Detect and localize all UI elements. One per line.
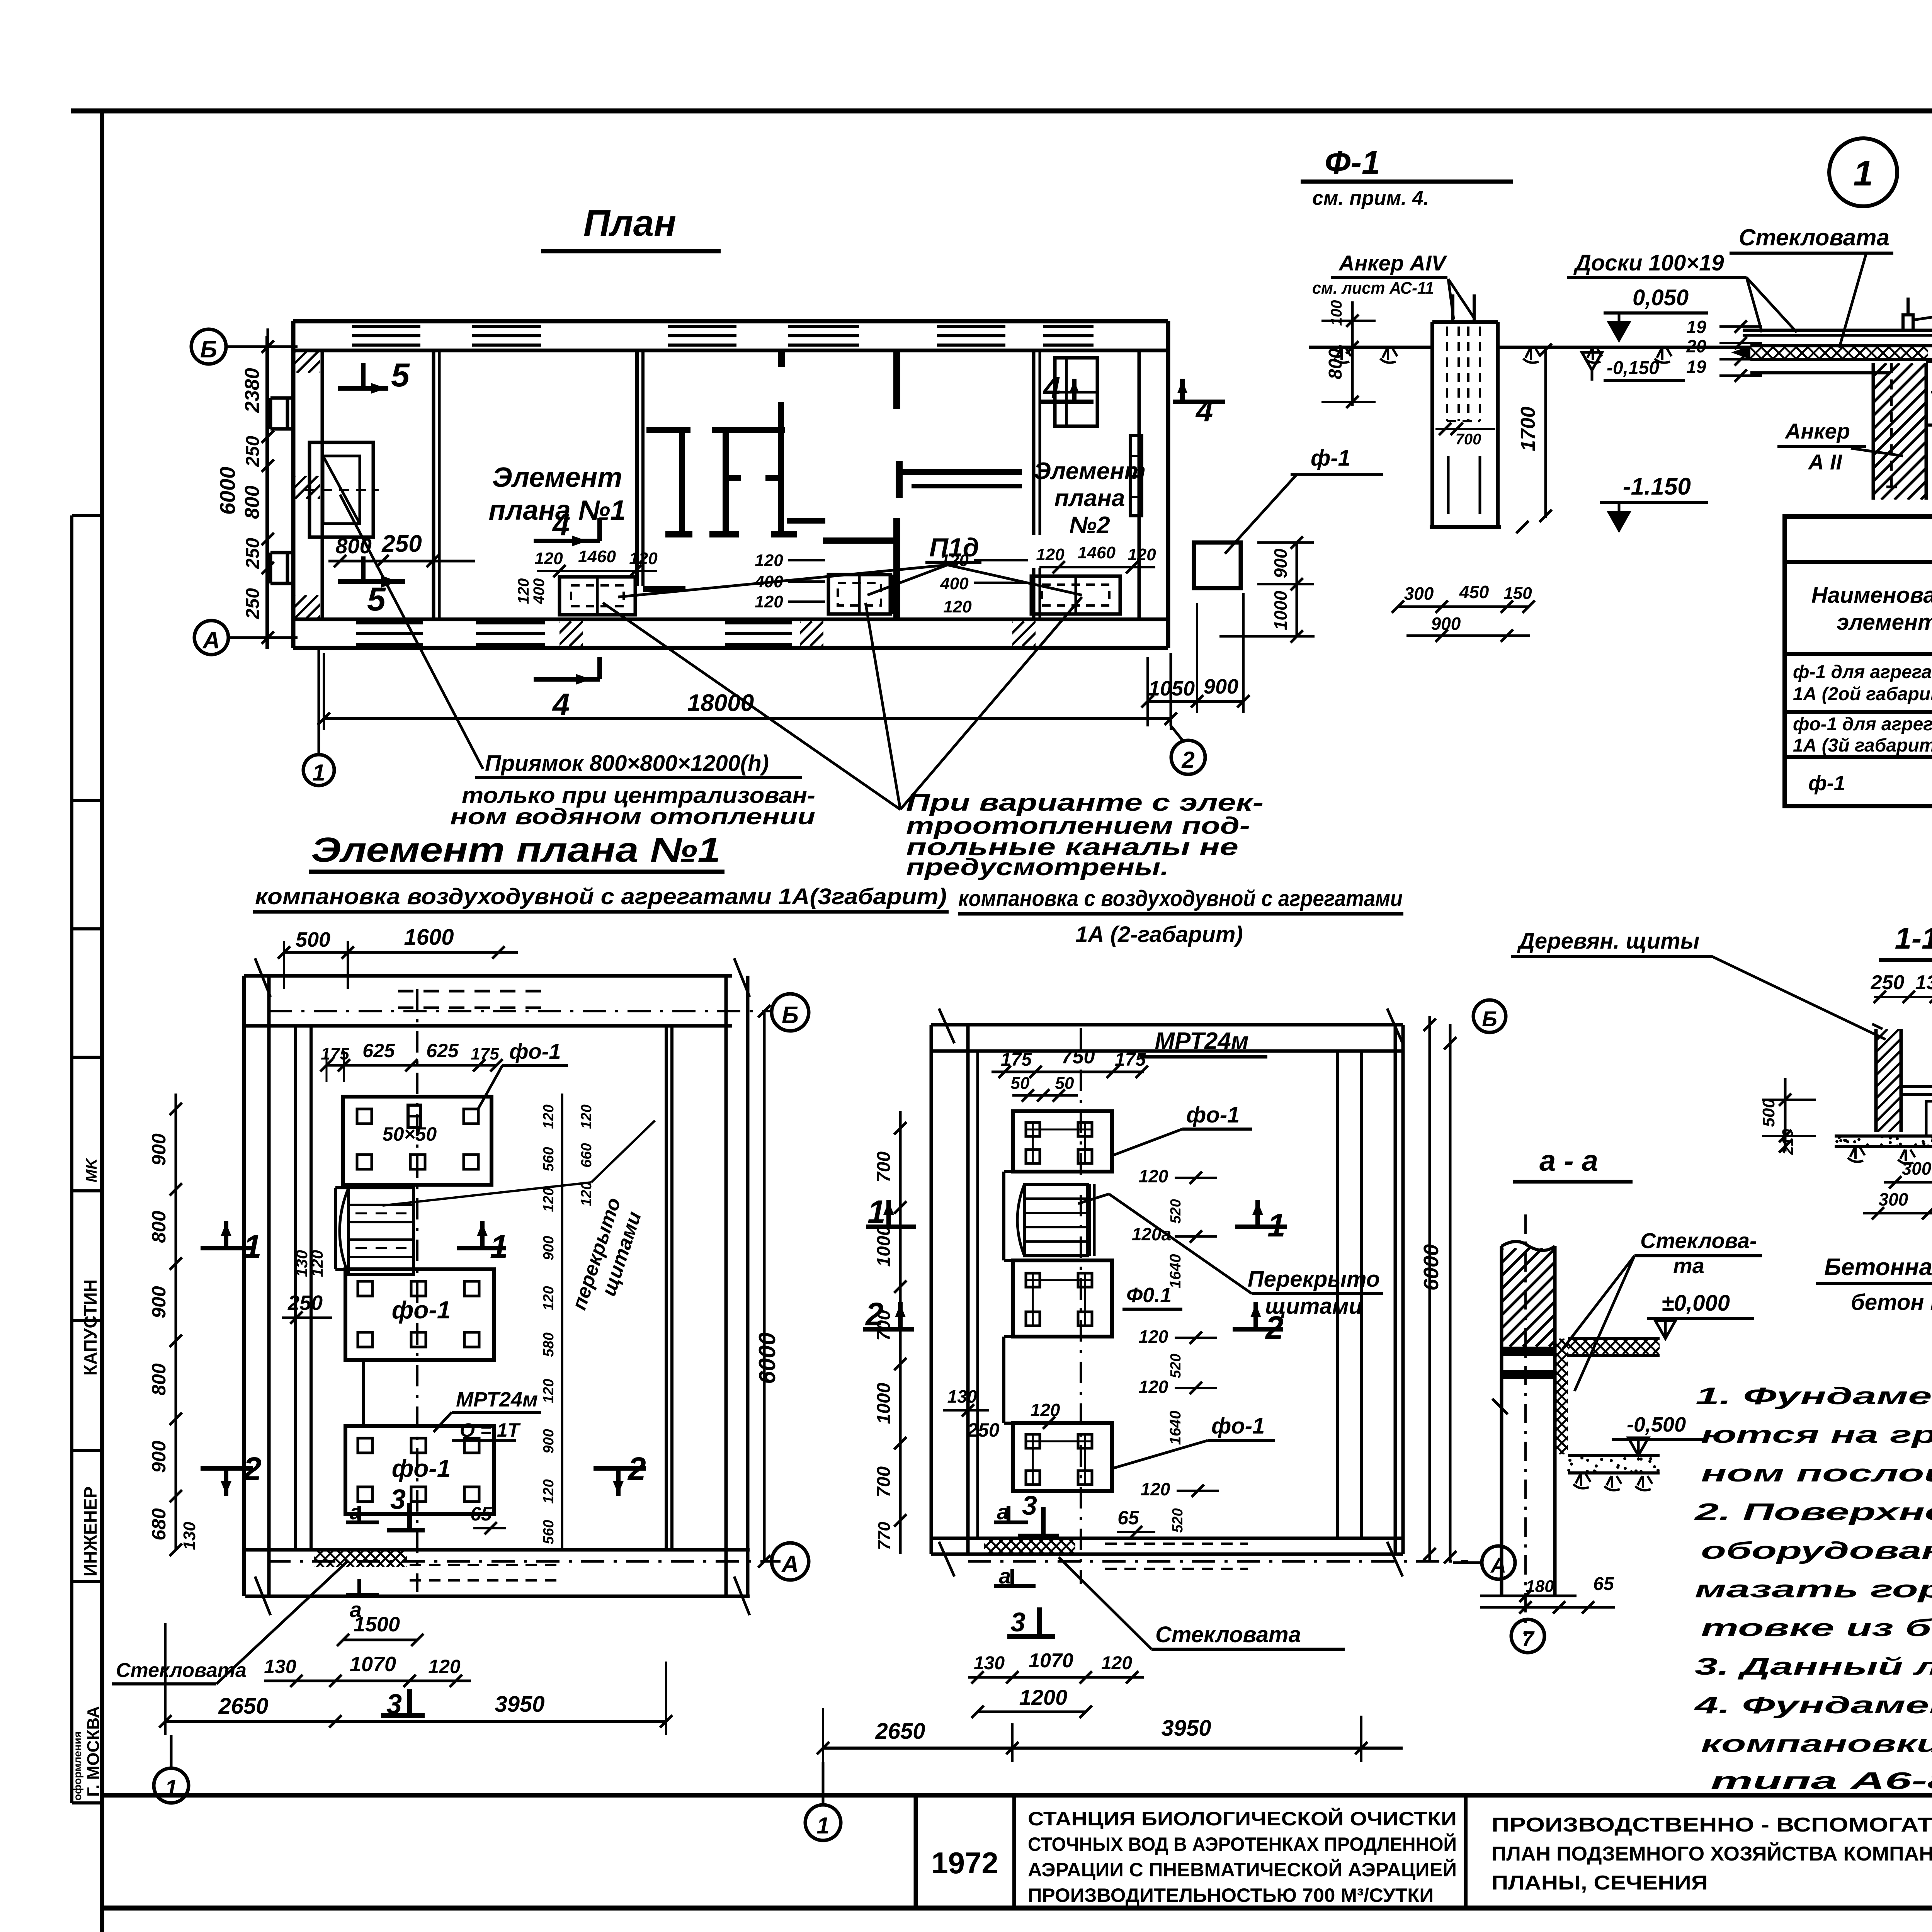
- plan1 leader перекрыто to blocks: [383, 1121, 655, 1206]
- floor layers 19 20 19: [1686, 317, 1762, 382]
- svg-text:-0,500: -0,500: [1627, 1413, 1686, 1436]
- level mark -0.150: [1582, 352, 1685, 381]
- svg-text:1460: 1460: [1078, 543, 1116, 562]
- svg-text:800: 800: [148, 1363, 170, 1396]
- grid axis 1 vertical line: [318, 649, 320, 753]
- section 1-1 bottom dims: [1863, 1156, 1932, 1219]
- svg-text:120: 120: [308, 1250, 326, 1277]
- svg-text:При варианте с элек-: При варианте с элек-: [906, 789, 1264, 816]
- leader line приямок: [340, 495, 483, 769]
- svg-text:700: 700: [874, 1151, 894, 1182]
- partition wall right room: [1034, 350, 1040, 619]
- svg-text:СТАНЦИЯ БИОЛОГИЧЕСКОЙ ОЧИСТКИ: СТАНЦИЯ БИОЛОГИЧЕСКОЙ ОЧИСТКИ: [1028, 1808, 1457, 1830]
- hatched pier bottom wall 2: [776, 621, 858, 646]
- cabinet right room: [1055, 358, 1097, 426]
- svg-text:500: 500: [296, 928, 330, 951]
- svg-text:фо-1 для агрегата: фо-1 для агрегата: [1793, 714, 1932, 735]
- svg-text:800: 800: [241, 486, 264, 519]
- svg-text:150: 150: [1503, 584, 1532, 603]
- entrance porch left bottom: [270, 553, 293, 583]
- svg-text:120: 120: [541, 1286, 557, 1310]
- section flag 4 right-a: [1041, 370, 1094, 405]
- svg-text:180: 180: [1526, 1577, 1554, 1596]
- svg-text:50×50: 50×50: [383, 1123, 437, 1145]
- svg-text:ПРОИЗВОДСТВЕННО - ВСПОМОГАТЕЛЬ: ПРОИЗВОДСТВЕННО - ВСПОМОГАТЕЛЬНОЕ ЗДАНИЕ: [1492, 1814, 1932, 1836]
- svg-text:130: 130: [264, 1656, 296, 1677]
- grid circle 1: [303, 755, 334, 786]
- svg-text:МРТ24м: МРТ24м: [456, 1388, 538, 1411]
- svg-text:130: 130: [180, 1522, 199, 1550]
- plan left dim texts 2380 250 800 250 250: [241, 368, 264, 619]
- svg-text:120: 120: [755, 592, 783, 611]
- section flag 4 upper-mid: [534, 507, 600, 546]
- grid circle 2: [1171, 740, 1205, 774]
- svg-text:1050: 1050: [1148, 677, 1195, 700]
- svg-text:900: 900: [148, 1286, 170, 1318]
- svg-text:Приямок 800×800×1200(h): Приямок 800×800×1200(h): [485, 751, 769, 776]
- pier anchor dashed lines: [1447, 294, 1480, 514]
- subheading компановка с воздуходувной 2 габарит: [958, 886, 1403, 947]
- svg-text:ПРОИЗВОДИТЕЛЬНОСТЬЮ 700 М³/СУТ: ПРОИЗВОДИТЕЛЬНОСТЬЮ 700 М³/СУТКИ: [1028, 1884, 1434, 1906]
- svg-text:100: 100: [1328, 300, 1345, 326]
- svg-text:800: 800: [148, 1211, 170, 1243]
- svg-text:50: 50: [1011, 1074, 1030, 1093]
- svg-text:фо-1: фо-1: [392, 1296, 451, 1324]
- plan1 top wall: [244, 976, 732, 1026]
- svg-text:120: 120: [428, 1656, 461, 1677]
- svg-text:400: 400: [531, 578, 548, 605]
- plan2 axis А dashed: [968, 1560, 1468, 1563]
- note Приямок 800х800х1200: [450, 751, 815, 829]
- svg-text:250: 250: [1871, 971, 1905, 994]
- section 1-1 small post: [1926, 1101, 1932, 1136]
- svg-text:Наименование: Наименование: [1811, 583, 1932, 608]
- section flag 5 lower: [338, 556, 405, 618]
- plan1 rotated label перекрыто щитами: [568, 1195, 646, 1313]
- svg-text:4: 4: [552, 687, 570, 721]
- plan dim 120 400 120 middle: [754, 551, 825, 611]
- svg-text:1. Фундаменты под оборуд: 1. Фундаменты под оборудование устраива-: [1696, 1383, 1932, 1410]
- wood deck boards section: [1731, 330, 1932, 373]
- plan1 top dim 500 1600: [278, 925, 518, 989]
- section a-a lower slab: [1567, 1456, 1660, 1490]
- section a-a level 0.000: [1647, 1291, 1754, 1338]
- footing Ф-1 square: [1194, 543, 1241, 588]
- svg-text:ф-1: ф-1: [1808, 772, 1845, 795]
- plan1 right wall: [666, 976, 748, 1596]
- svg-text:Ф-1: Ф-1: [1325, 144, 1380, 181]
- detail subtitle см.прим.4: [1312, 187, 1429, 209]
- svg-text:Стекловата: Стекловата: [116, 1659, 247, 1682]
- plan1 section flag 1 right: [457, 1221, 508, 1265]
- plan1 dim 2650 3950: [159, 1623, 672, 1735]
- svg-text:Стекловата: Стекловата: [1739, 224, 1889, 250]
- svg-text:Анкер: Анкер: [1784, 419, 1850, 443]
- svg-text:120: 120: [1139, 1166, 1168, 1186]
- svg-text:0,050: 0,050: [1633, 285, 1689, 310]
- window W9 bottom wall: [725, 623, 792, 645]
- svg-text:1: 1: [165, 1775, 177, 1801]
- svg-text:560: 560: [541, 1520, 557, 1544]
- section a-a level -0.500: [1612, 1413, 1708, 1456]
- svg-text:1200: 1200: [1019, 1685, 1068, 1709]
- plan1 section flag 2 right: [594, 1451, 646, 1496]
- svg-text:1: 1: [490, 1228, 508, 1265]
- section flag 4 lower-mid: [534, 657, 600, 721]
- svg-text:400: 400: [940, 574, 969, 593]
- svg-text:900: 900: [148, 1440, 170, 1473]
- plan dim 120 1460 120 room2: [1036, 543, 1156, 573]
- section flag 5 upper: [338, 357, 410, 394]
- svg-text:300: 300: [1879, 1189, 1908, 1209]
- partition L-wall middle lower: [787, 518, 900, 619]
- svg-text:900: 900: [1431, 614, 1461, 634]
- grid axis А line: [229, 636, 298, 639]
- svg-text:7: 7: [1522, 1626, 1535, 1651]
- sheet frame left border: [100, 111, 104, 1932]
- section 1-1 inner pier hatched: [1924, 1099, 1932, 1136]
- plan1 bottom wall: [245, 1550, 750, 1596]
- section a-a glasswool strip vertical: [1439, 1338, 1685, 1454]
- channel box П1д right room: [1031, 576, 1120, 614]
- plan1 bottom hatched strip стекловата: [296, 1550, 434, 1567]
- svg-text:1: 1: [1267, 1207, 1286, 1243]
- plan1 foundation block 3: [345, 1426, 494, 1514]
- svg-text:АЭРАЦИИ С ПНЕВМАТИЧЕСКОЙ АЭРАЦ: АЭРАЦИИ С ПНЕВМАТИЧЕСКОЙ АЭРАЦИЕЙ: [1028, 1859, 1457, 1881]
- label Бетонная подготовка: [1816, 1140, 1932, 1315]
- svg-text:Элемент: Элемент: [1034, 458, 1146, 485]
- grid circle А: [194, 621, 228, 655]
- plan2 dim 65: [1117, 1507, 1155, 1538]
- svg-text:625: 625: [362, 1040, 395, 1061]
- plan1 grid circle 1: [154, 1735, 189, 1803]
- hatched pier bottom wall 3: [988, 621, 1070, 646]
- svg-text:175: 175: [1115, 1049, 1146, 1070]
- svg-text:250: 250: [243, 538, 263, 569]
- svg-text:плана: плана: [1054, 485, 1125, 512]
- plan2 bottom wall: [931, 1538, 1403, 1569]
- svg-text:130: 130: [974, 1653, 1005, 1673]
- plan dim 120 400 120 right: [940, 551, 1028, 616]
- svg-text:a: a: [997, 1500, 1009, 1524]
- svg-text:5: 5: [367, 581, 386, 618]
- partition wall x2312 upper: [893, 350, 900, 409]
- plan2 wall break marks: [939, 1009, 1403, 1577]
- plan1 foundation block 1: [343, 1097, 492, 1185]
- soil hatch marks: [1334, 349, 1672, 363]
- svg-text:120: 120: [1031, 1400, 1060, 1420]
- foundation pier Ф-1 section: [1430, 322, 1501, 527]
- svg-text:65: 65: [1593, 1574, 1614, 1594]
- building outer wall right: [1139, 321, 1168, 648]
- svg-text:1070: 1070: [350, 1653, 396, 1676]
- svg-text:элемента: элемента: [1837, 610, 1932, 635]
- svg-text:580: 580: [541, 1332, 557, 1357]
- svg-text:120: 120: [940, 551, 969, 570]
- plan left dim 6000: [215, 467, 240, 515]
- plan2 foundation block 3: [1013, 1423, 1112, 1491]
- svg-text:300: 300: [1404, 583, 1434, 604]
- plan bottom dim line 18000: [318, 653, 1177, 730]
- plan1 section flag 1 left: [201, 1221, 262, 1265]
- svg-text:1: 1: [243, 1228, 262, 1265]
- svg-text:175: 175: [471, 1044, 499, 1063]
- svg-text:19: 19: [1686, 357, 1706, 377]
- materials table headers: [1811, 567, 1932, 648]
- svg-text:СТОЧНЫХ ВОД В АЭРОТЕНКАХ ПРОДЛ: СТОЧНЫХ ВОД В АЭРОТЕНКАХ ПРОДЛЕННОЙ: [1028, 1833, 1457, 1855]
- channel box П1д room1: [560, 577, 635, 615]
- svg-text:А: А: [1490, 1553, 1506, 1577]
- svg-text:65: 65: [1117, 1507, 1139, 1529]
- svg-text:1070: 1070: [1029, 1650, 1073, 1672]
- svg-text:4: 4: [1195, 393, 1213, 428]
- svg-text:Ф0.1: Ф0.1: [1126, 1284, 1172, 1307]
- svg-text:19: 19: [1686, 317, 1706, 337]
- plan2 flag a lower: [994, 1564, 1036, 1588]
- plan2 left wall: [931, 1025, 978, 1554]
- svg-text:120: 120: [943, 597, 972, 616]
- svg-text:Анкер АIV: Анкер АIV: [1338, 251, 1448, 275]
- plan1 axis Б dashed: [269, 1010, 771, 1012]
- svg-text:Стекловата: Стекловата: [1155, 1622, 1301, 1647]
- hatched pier left wall mid: [272, 476, 353, 499]
- sanitary cubicle T-wall 1: [646, 427, 692, 537]
- svg-text:520: 520: [1170, 1508, 1186, 1532]
- plan2 center axis dashed: [1080, 1028, 1082, 1584]
- detail dim tick bottom: [1516, 521, 1529, 533]
- plan2 label фо-1 top leader: [1113, 1102, 1252, 1155]
- partition wall x1644: [637, 350, 685, 592]
- svg-text:900: 900: [541, 1236, 557, 1260]
- sheet bottom border / title block bottom: [102, 1906, 1932, 1911]
- plan1 center axis dashed: [416, 989, 418, 1592]
- section a-a grid circle А: [1453, 1546, 1515, 1579]
- channel box П1д middle: [828, 575, 893, 614]
- plan2 left dim string: [874, 1111, 906, 1554]
- svg-text:700: 700: [1456, 431, 1481, 448]
- section 1-1 ground slab: [1835, 1135, 1932, 1164]
- svg-text:250: 250: [287, 1291, 323, 1315]
- pit dashed axis: [305, 489, 379, 491]
- svg-text:900: 900: [148, 1133, 170, 1166]
- window W3 top wall: [668, 324, 736, 348]
- svg-text:ф-1: ф-1: [1311, 446, 1350, 471]
- plan1 dim 175 625 625 175: [320, 1040, 503, 1082]
- svg-text:625: 625: [426, 1040, 459, 1061]
- plan bottom dim 1050 900: [1141, 593, 1250, 726]
- svg-text:1600: 1600: [404, 925, 454, 950]
- svg-text:700: 700: [874, 1310, 894, 1341]
- left margin stamp column boxes: [72, 515, 102, 1803]
- plan dim 800 250 pit: [328, 531, 475, 567]
- svg-text:1000: 1000: [874, 1225, 894, 1267]
- section 1-1 floor slab: [1901, 1087, 1932, 1094]
- svg-text:120: 120: [541, 1104, 557, 1129]
- svg-text:ПЛАН ПОДЗЕМНОГО ХОЗЯЙСТВА КОМП: ПЛАН ПОДЗЕМНОГО ХОЗЯЙСТВА КОМПАНОВКА ВОЗ…: [1492, 1842, 1932, 1865]
- detail pier bottom dims 300 450 150: [1392, 582, 1535, 613]
- plan1 wall break marks: [255, 958, 750, 1615]
- plan dim stack 120 400 120 room1: [515, 578, 548, 605]
- svg-text:3: 3: [390, 1484, 406, 1515]
- svg-text:3950: 3950: [495, 1692, 544, 1717]
- plan2 bottom hatched strip: [968, 1538, 1094, 1554]
- svg-text:1-1: 1-1: [1895, 921, 1932, 955]
- anchor rod in pier: [1886, 363, 1897, 487]
- svg-text:3: 3: [1022, 1490, 1037, 1520]
- deck bolt Брус: [1903, 298, 1913, 330]
- svg-text:500: 500: [1759, 1099, 1778, 1127]
- section 1-1 dim 250 130: [1871, 971, 1932, 1003]
- svg-text:Бетонная подготовка: Бетонная подготовка: [1824, 1254, 1932, 1281]
- svg-text:65: 65: [470, 1503, 492, 1525]
- svg-text:120: 120: [1141, 1479, 1170, 1499]
- plan2 top dims 175 750 175 50 50: [992, 1046, 1148, 1102]
- svg-text:6000: 6000: [754, 1332, 780, 1384]
- section a-a floor right: [1553, 1338, 1679, 1355]
- section 1-1 wall hatched: [1773, 1024, 1932, 1132]
- room label Элемент плана №1: [489, 462, 626, 526]
- svg-text:2: 2: [243, 1451, 262, 1487]
- svg-text:175: 175: [321, 1044, 349, 1063]
- svg-text:120: 120: [1139, 1377, 1168, 1397]
- plan2 section flag 1 right: [1235, 1200, 1287, 1243]
- svg-text:см. прим. 4.: см. прим. 4.: [1312, 187, 1429, 209]
- svg-text:4. Фундамент Ф-1 под труб: 4. Фундамент Ф-1 под трубу для варианта: [1693, 1692, 1932, 1719]
- svg-text:Q = 1Т: Q = 1Т: [460, 1419, 521, 1441]
- svg-text:ф-1 для агрегата: ф-1 для агрегата: [1793, 662, 1932, 682]
- svg-text:-0,150: -0,150: [1607, 358, 1659, 378]
- plan2 section flag 2 left: [863, 1296, 914, 1332]
- svg-text:оборудование, соприкасающиеся: оборудование, соприкасающиеся с землей, …: [1701, 1537, 1932, 1564]
- svg-text:120: 120: [1101, 1653, 1132, 1673]
- svg-text:1: 1: [867, 1194, 886, 1230]
- svg-text:2: 2: [627, 1451, 646, 1487]
- svg-text:компановка воздуходувной с агр: компановка воздуходувной с агрегатами 1А…: [255, 884, 947, 909]
- sheet frame top border: [71, 109, 1932, 114]
- svg-text:120: 120: [1128, 545, 1156, 564]
- svg-text:a: a: [999, 1564, 1011, 1588]
- svg-text:560: 560: [541, 1147, 557, 1171]
- svg-text:20: 20: [1686, 336, 1706, 356]
- svg-text:Б: Б: [1482, 1007, 1497, 1031]
- svg-text:1640: 1640: [1167, 1411, 1184, 1445]
- svg-text:типа А6-800 см. лист АС-: типа А6-800 см. лист АС-16.: [1711, 1768, 1932, 1794]
- svg-text:1: 1: [1853, 154, 1873, 193]
- plan1 dim 6000 right: [754, 1005, 780, 1568]
- notes text block: [1693, 1383, 1932, 1794]
- svg-text:Стеклова-: Стеклова-: [1640, 1228, 1757, 1253]
- svg-text:6000: 6000: [1420, 1244, 1443, 1291]
- svg-text:250: 250: [381, 531, 422, 557]
- svg-text:2380: 2380: [241, 368, 264, 413]
- hatched pier left wall top: [274, 352, 353, 373]
- svg-text:120a: 120a: [1132, 1224, 1171, 1244]
- svg-text:1А (2ой габарит): 1А (2ой габарит): [1793, 684, 1932, 704]
- svg-text:Элемент плана №1: Элемент плана №1: [311, 831, 721, 869]
- svg-text:1972: 1972: [931, 1846, 998, 1880]
- window W2 top wall: [472, 324, 541, 348]
- plan2 flag 3 upper: [1018, 1490, 1059, 1536]
- svg-text:900: 900: [1270, 548, 1291, 578]
- materials row 2 фо-1 для агрегата 3 габарит: [1793, 714, 1932, 756]
- plan1 right dim string outer: [578, 1104, 595, 1206]
- svg-text:4: 4: [1043, 370, 1061, 405]
- svg-text:250: 250: [243, 588, 263, 619]
- svg-text:ИНЖЕНЕР: ИНЖЕНЕР: [80, 1486, 100, 1577]
- svg-text:900: 900: [541, 1429, 557, 1453]
- svg-text:ном послойно.: ном послойно.: [1701, 1460, 1932, 1487]
- title block sheet name: [1492, 1814, 1932, 1894]
- svg-text:предусмотрены.: предусмотрены.: [906, 854, 1169, 881]
- svg-text:2: 2: [1265, 1310, 1284, 1346]
- window W7 bottom wall: [356, 623, 423, 645]
- ground line left of pier: [1309, 346, 1432, 349]
- plan2 label Ф0.1 mid: [1122, 1284, 1182, 1309]
- plan1 flag a lower: [346, 1579, 379, 1622]
- detail dim 800 100 left: [1321, 300, 1376, 408]
- plan1 trolley hatched: [340, 1188, 413, 1274]
- plan1 grid circle А: [772, 1543, 809, 1580]
- plan2 label Перекрыто щитами: [1078, 1194, 1383, 1319]
- svg-text:18000: 18000: [687, 690, 754, 716]
- section 1-1 left dims 500 210: [1759, 1078, 1816, 1155]
- grid axis 2 vertical line: [1171, 653, 1183, 741]
- svg-text:1000: 1000: [874, 1383, 894, 1424]
- svg-text:ПЛАНЫ, СЕЧЕНИЯ: ПЛАНЫ, СЕЧЕНИЯ: [1492, 1872, 1708, 1894]
- entrance porch left top: [270, 398, 293, 429]
- svg-text:Элемент: Элемент: [492, 462, 622, 493]
- svg-text:250: 250: [967, 1419, 1000, 1441]
- svg-text:3. Данный лист см. сов: 3. Данный лист см. совместно с листом АС…: [1695, 1653, 1932, 1680]
- svg-text:1460: 1460: [578, 547, 616, 566]
- section a-a wall hatched: [1405, 1242, 1661, 1596]
- title block project name: [1028, 1808, 1457, 1906]
- left margin stamp text ИНЖЕНЕР КАПУСТИН: [80, 1157, 100, 1577]
- leader Ф-1 to footing: [1225, 446, 1383, 554]
- building outer wall bottom: [293, 619, 1168, 648]
- plan2 dim 130 250 120: [943, 1386, 1074, 1441]
- svg-text:a: a: [350, 1500, 362, 1524]
- plan2 section flag 1 left: [866, 1194, 916, 1230]
- svg-text:120: 120: [629, 549, 658, 568]
- svg-text:План: План: [583, 202, 676, 244]
- hatched pier left wall bottom: [272, 595, 353, 618]
- svg-text:№2: №2: [1069, 512, 1110, 539]
- left margin stamp text Г.МОСКВА: [71, 1706, 103, 1801]
- section title 1-1: [1879, 921, 1932, 960]
- sanitary cubicle wall 3: [765, 402, 797, 537]
- window W1 top wall: [352, 324, 420, 348]
- deck insulation crosshatch: [1738, 347, 1932, 359]
- hatched pier under deck: [1737, 363, 1932, 500]
- svg-text:фо-1: фо-1: [392, 1454, 451, 1482]
- level mark -1.150: [1600, 473, 1708, 530]
- plan1 left dim string: [148, 1094, 199, 1556]
- vestibule wall vertical: [434, 350, 439, 619]
- plan1 left wall: [244, 976, 311, 1596]
- svg-text:750: 750: [1061, 1046, 1095, 1068]
- svg-text:120: 120: [534, 549, 563, 568]
- svg-text:120: 120: [578, 1182, 595, 1206]
- label Деревян щиты: [1511, 929, 1886, 1039]
- svg-text:2650: 2650: [218, 1694, 268, 1719]
- svg-text:400: 400: [754, 572, 783, 591]
- section a-a center axis: [1524, 1214, 1527, 1636]
- svg-text:a - a: a - a: [1539, 1145, 1598, 1177]
- svg-text:А: А: [202, 627, 220, 654]
- svg-text:1500: 1500: [354, 1613, 400, 1636]
- plan2 section flag 2 right: [1233, 1302, 1284, 1346]
